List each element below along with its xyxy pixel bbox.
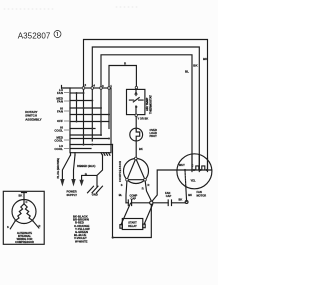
svg-text:THERMOSTAT: THERMOSTAT <box>149 95 153 114</box>
svg-text:S: S <box>7 225 9 229</box>
svg-text:SUPPLY: SUPPLY <box>67 193 78 197</box>
svg-text:PROT: PROT <box>150 134 158 138</box>
svg-text:4: 4 <box>93 84 95 88</box>
svg-text:BK: BK <box>193 64 198 68</box>
svg-text:CAP: CAP <box>131 197 137 201</box>
svg-text:YEL: YEL <box>191 179 196 183</box>
svg-text:RELAY: RELAY <box>128 224 137 228</box>
svg-text:C: C <box>192 164 194 168</box>
svg-text:3: 3 <box>102 84 104 88</box>
svg-text:R: R <box>142 187 144 191</box>
svg-text:BK: BK <box>188 193 192 197</box>
svg-text:G: G <box>85 172 87 176</box>
svg-text:2: 2 <box>85 83 87 87</box>
svg-text:RIBBED (BLK): RIBBED (BLK) <box>77 164 95 168</box>
svg-text:COOL: COOL <box>54 147 63 151</box>
svg-text:A352807: A352807 <box>18 32 51 41</box>
svg-text:BK: BK <box>139 147 143 151</box>
svg-text:W-WHITE: W-WHITE <box>75 239 88 243</box>
svg-text:R: R <box>39 224 41 228</box>
svg-text:PLUG (BROWN): PLUG (BROWN) <box>56 158 60 179</box>
svg-text:FAN: FAN <box>57 91 63 95</box>
svg-text:MOTOR: MOTOR <box>197 193 207 197</box>
svg-text:BK: BK <box>19 194 23 198</box>
svg-text:R: R <box>148 183 150 187</box>
svg-text:WHT: WHT <box>179 163 185 167</box>
svg-text:COOL: COOL <box>54 139 63 143</box>
svg-text:FAN: FAN <box>57 110 63 114</box>
svg-text:COOL: COOL <box>54 129 63 133</box>
svg-text:C: C <box>26 200 28 204</box>
svg-text:FAN: FAN <box>57 100 63 104</box>
svg-text:CAP: CAP <box>166 194 172 198</box>
svg-text:START: START <box>128 220 137 224</box>
svg-text:GND: GND <box>92 193 98 197</box>
svg-text:1: 1 <box>110 84 112 88</box>
svg-text:ASSEMBLY: ASSEMBLY <box>25 117 41 121</box>
svg-text:BK: BK <box>179 198 183 202</box>
svg-text:COMPRESSOR: COMPRESSOR <box>15 240 34 244</box>
svg-text:R: R <box>124 61 127 65</box>
svg-text:OFF: OFF <box>57 119 63 123</box>
svg-text:COMPRESSOR: COMPRESSOR <box>118 161 122 182</box>
svg-text:BL: BL <box>119 193 123 197</box>
svg-text:BL: BL <box>185 70 189 74</box>
svg-text:Y OR BK: Y OR BK <box>138 117 149 121</box>
svg-text:POWER: POWER <box>67 190 77 194</box>
svg-text:S: S <box>121 183 123 187</box>
